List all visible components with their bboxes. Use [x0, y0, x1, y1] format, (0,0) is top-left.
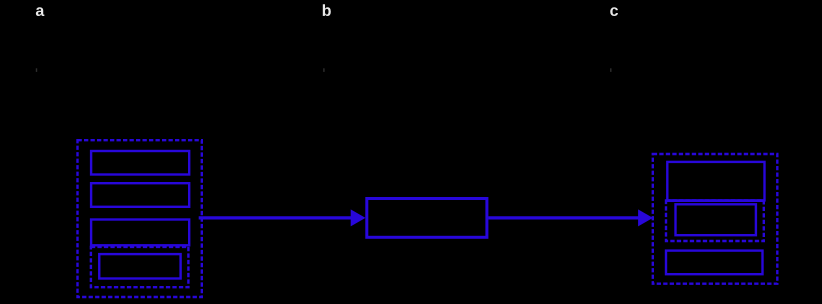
faint mark under a — [36, 68, 37, 72]
left block 4 — [99, 254, 180, 278]
right block 1 bottom edge reinforcement — [666, 199, 764, 202]
left block 2 — [91, 183, 189, 207]
faint mark under b — [323, 68, 324, 72]
arrow 2 head — [638, 209, 653, 226]
right block 1 — [667, 162, 764, 201]
left block 3 — [91, 220, 189, 246]
right inner dashed box — [666, 201, 764, 242]
left block 1 — [91, 151, 189, 175]
arrow 1 shaft — [199, 216, 352, 219]
right block 2 — [676, 204, 756, 235]
panel label c — [610, 7, 618, 16]
panel label b — [323, 4, 331, 16]
faint mark under c — [610, 68, 611, 72]
arrow 2 shaft — [488, 216, 639, 219]
right block 3 — [666, 251, 763, 275]
left group outer dashed box — [78, 140, 202, 297]
arrow 1 head — [351, 209, 366, 226]
panel label a — [36, 7, 45, 16]
middle box — [367, 199, 487, 238]
right group outer dashed box — [653, 154, 778, 284]
left inner dashed box — [91, 247, 188, 287]
